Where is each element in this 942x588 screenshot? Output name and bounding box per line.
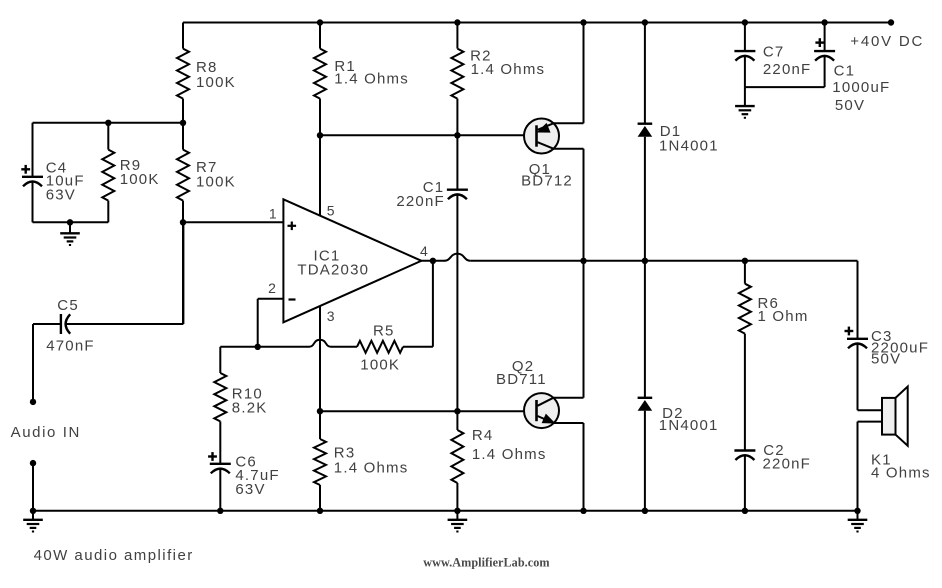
wire +40V DC top rail xyxy=(183,22,891,24)
ground under C4 xyxy=(60,222,80,245)
polarity + of C1 xyxy=(815,38,824,47)
transistor Q2 xyxy=(524,261,584,511)
value C7 220nF xyxy=(763,61,812,78)
svg-text:1: 1 xyxy=(269,205,277,221)
node R3 bottom xyxy=(317,508,323,514)
ground at audio input xyxy=(23,511,43,532)
wire C4-R9 row xyxy=(33,122,184,124)
resistor R2 xyxy=(451,23,463,136)
label D1 xyxy=(660,123,682,140)
ground under R4 xyxy=(448,511,468,532)
capacitor C1 1000uF xyxy=(814,23,835,88)
node C4 ground junction xyxy=(67,219,73,225)
wire inverting input xyxy=(258,299,284,347)
wire speaker top lead xyxy=(858,409,883,411)
value C6 63V xyxy=(235,481,265,498)
wire pin5 drop xyxy=(319,135,321,215)
value C1 220nF xyxy=(396,193,445,210)
wire C4-R9 bottom xyxy=(33,221,109,223)
capacitor C1 220nF xyxy=(447,135,468,411)
svg-text:1.4 Ohms: 1.4 Ohms xyxy=(472,446,547,463)
node Q2 emitter bottom xyxy=(580,508,586,514)
node Q1 emitter / top rail xyxy=(580,19,586,25)
resistor R8 xyxy=(177,23,189,123)
value C3 2200uF xyxy=(871,339,929,356)
capacitor C7 xyxy=(734,23,755,88)
svg-text:C7: C7 xyxy=(763,43,785,60)
node R1 top xyxy=(317,19,323,25)
svg-text:470nF: 470nF xyxy=(46,338,95,355)
resistor R10 xyxy=(214,347,226,464)
label R5 xyxy=(373,323,395,340)
wire ground bottom rail xyxy=(33,510,858,512)
resistor R6 xyxy=(739,261,751,451)
svg-text:R4: R4 xyxy=(472,427,494,444)
label R3 xyxy=(334,444,356,461)
node C6 bottom xyxy=(217,508,223,514)
wire base row Q2 xyxy=(320,410,537,412)
svg-text:1.4 Ohms: 1.4 Ohms xyxy=(334,71,409,88)
value C2 220nF xyxy=(763,455,812,472)
node R8-R7 junction xyxy=(180,120,186,126)
value C5 470nF xyxy=(46,338,95,355)
label R8 xyxy=(196,59,218,76)
wire R5 to output xyxy=(432,261,434,347)
svg-text:8.2K: 8.2K xyxy=(232,399,268,416)
svg-text:R5: R5 xyxy=(373,323,395,340)
svg-text:100K: 100K xyxy=(120,171,160,188)
wire speaker bottom lead xyxy=(858,422,883,511)
resistor R4 xyxy=(451,411,463,511)
title 40W audio amplifier xyxy=(34,547,194,564)
value R9 100K xyxy=(120,171,160,188)
label C1 xyxy=(423,179,445,196)
label +40V DC xyxy=(850,33,924,50)
svg-text:1 Ohm: 1 Ohm xyxy=(758,308,809,325)
value R3 1.4 Ohms xyxy=(334,460,409,477)
value K1 4 Ohms xyxy=(871,464,931,481)
label R9 xyxy=(120,157,142,174)
op-amp IC1 TDA2030 xyxy=(283,199,421,322)
node audio input terminal xyxy=(30,399,36,405)
label C5 xyxy=(57,297,79,314)
label C6 xyxy=(235,453,257,470)
svg-text:63V: 63V xyxy=(235,481,265,498)
wire R5 row xyxy=(220,340,357,347)
node R1 pin5 junction xyxy=(317,132,323,138)
node audio ground terminal xyxy=(30,460,36,466)
node D2 anode bottom xyxy=(642,508,648,514)
minus sign inverting xyxy=(289,298,296,300)
resistor R3 xyxy=(314,439,326,511)
value R7 100K xyxy=(196,174,236,191)
svg-text:5: 5 xyxy=(327,203,335,219)
svg-text:50V: 50V xyxy=(871,350,901,367)
diode D1 xyxy=(638,23,653,261)
svg-text:63V: 63V xyxy=(46,186,76,203)
svg-text:3: 3 xyxy=(327,308,335,324)
pin number 1 xyxy=(269,205,277,221)
svg-text:100K: 100K xyxy=(196,74,236,91)
svg-text:4 Ohms: 4 Ohms xyxy=(871,464,931,481)
wire base row Q1 xyxy=(320,134,537,136)
value C1 50V xyxy=(835,97,865,114)
svg-text:1N4001: 1N4001 xyxy=(659,417,719,434)
label IC1 xyxy=(314,248,341,265)
node R4 base junction xyxy=(454,408,460,414)
label R1 xyxy=(334,58,356,75)
node R9 top xyxy=(105,120,111,126)
label C3 xyxy=(871,328,893,345)
label C4 xyxy=(46,160,68,177)
polarity + of C4 xyxy=(21,165,30,174)
node output pin4 xyxy=(430,258,436,264)
wire pin3 down xyxy=(319,306,321,439)
svg-text:4: 4 xyxy=(420,243,428,259)
node R2 base junction xyxy=(454,132,460,138)
wire C7-C1 bottom xyxy=(745,86,825,88)
value R2 1.4 Ohms xyxy=(471,61,546,78)
diode D2 xyxy=(638,261,653,511)
svg-text:220nF: 220nF xyxy=(763,61,812,78)
resistor R9 xyxy=(102,123,114,223)
svg-text:100K: 100K xyxy=(360,357,400,374)
transistor Q1 xyxy=(524,23,584,261)
value D1 1N4001 xyxy=(659,137,719,154)
value R8 100K xyxy=(196,74,236,91)
node D1 cathode / top rail xyxy=(642,19,648,25)
node speaker bottom xyxy=(854,508,860,514)
value Q2 BD711 xyxy=(496,371,547,388)
wire C5 to R7 node xyxy=(66,222,184,324)
value R10 8.2K xyxy=(232,399,268,416)
svg-text:+40V DC: +40V DC xyxy=(850,33,924,50)
svg-text:BD711: BD711 xyxy=(496,371,547,388)
label D2 xyxy=(662,405,684,422)
node +40V DC terminal xyxy=(888,19,894,25)
value Q1 BD712 xyxy=(521,173,573,190)
node R6 top junction xyxy=(742,258,748,264)
value R5 100K xyxy=(360,357,400,374)
node R2 top xyxy=(454,19,460,25)
svg-text:220nF: 220nF xyxy=(396,193,445,210)
ground at speaker xyxy=(848,511,868,532)
label R4 xyxy=(472,427,494,444)
svg-text:BD712: BD712 xyxy=(521,173,573,190)
node C1 / top rail xyxy=(821,19,827,25)
ground under C7 xyxy=(735,87,755,118)
node rail left end xyxy=(30,508,36,514)
label R2 xyxy=(470,48,492,65)
svg-text:Audio IN: Audio IN xyxy=(11,424,81,441)
node C2 bottom xyxy=(742,508,748,514)
polarity + of C3 xyxy=(845,327,854,336)
resistor R1 xyxy=(314,23,326,136)
node D1-D2 junction xyxy=(642,258,648,264)
label Q2 xyxy=(512,358,534,375)
capacitor C6 xyxy=(210,464,231,511)
node Q collectors junction xyxy=(580,258,586,264)
wire audio input up xyxy=(33,324,61,402)
label Q1 xyxy=(529,161,551,178)
value C3 50V xyxy=(871,350,901,367)
svg-text:100K: 100K xyxy=(196,174,236,191)
pin number 2 xyxy=(268,280,276,296)
value C6 4.7uF xyxy=(235,467,279,484)
polarity + of C6 xyxy=(208,452,217,461)
label R10 xyxy=(232,386,263,403)
node R7-C5 junction xyxy=(180,219,186,225)
wire output xyxy=(421,254,857,261)
wire output to C3 xyxy=(857,261,859,339)
svg-text:2: 2 xyxy=(268,280,276,296)
resistor R7 xyxy=(177,123,189,223)
plus sign noninverting xyxy=(288,222,297,231)
value C1 1000uF xyxy=(832,79,890,96)
value R6 1 Ohm xyxy=(758,308,809,325)
node C7 / top rail xyxy=(742,19,748,25)
capacitor C5 xyxy=(61,314,70,334)
label R6 xyxy=(758,295,780,312)
label K1 xyxy=(871,451,892,468)
svg-text:www.AmplifierLab.com: www.AmplifierLab.com xyxy=(423,556,549,570)
value IC1 TDA2030 xyxy=(297,262,369,279)
svg-text:C5: C5 xyxy=(57,297,79,314)
svg-text:50V: 50V xyxy=(835,97,865,114)
label C1 1000uF xyxy=(834,63,856,80)
svg-text:1.4 Ohms: 1.4 Ohms xyxy=(334,460,409,477)
resistor R5 xyxy=(357,341,433,353)
capacitor C3 xyxy=(847,339,868,410)
svg-text:1000uF: 1000uF xyxy=(832,79,890,96)
speaker K1 xyxy=(882,387,908,446)
value C4 10uF xyxy=(46,172,85,189)
wire audio ground xyxy=(32,463,34,511)
pin number 3 xyxy=(327,308,335,324)
svg-text:C1: C1 xyxy=(834,63,856,80)
label R7 xyxy=(196,159,218,176)
value D2 1N4001 xyxy=(659,417,719,434)
svg-text:1.4 Ohms: 1.4 Ohms xyxy=(471,61,546,78)
pin number 5 xyxy=(327,203,335,219)
svg-text:1N4001: 1N4001 xyxy=(659,137,719,154)
value C4 63V xyxy=(46,186,76,203)
wire noninverting input xyxy=(183,221,283,223)
label C7 xyxy=(763,43,785,60)
node R4 bottom xyxy=(454,508,460,514)
capacitor C4 xyxy=(22,123,43,223)
node pin2 feedback junction xyxy=(255,344,261,350)
svg-text:220nF: 220nF xyxy=(763,455,812,472)
pin number 4 xyxy=(420,243,428,259)
label C2 xyxy=(763,442,785,459)
value R4 1.4 Ohms xyxy=(472,446,547,463)
value R1 1.4 Ohms xyxy=(334,71,409,88)
label Audio IN xyxy=(11,424,81,441)
wire R7 to C5 xyxy=(182,222,184,324)
node pin3-R3 junction xyxy=(317,408,323,414)
svg-text:TDA2030: TDA2030 xyxy=(297,262,369,279)
svg-text:40W audio amplifier: 40W audio amplifier xyxy=(34,547,194,564)
watermark www.AmplifierLab.com xyxy=(423,556,549,570)
capacitor C2 xyxy=(734,451,755,511)
